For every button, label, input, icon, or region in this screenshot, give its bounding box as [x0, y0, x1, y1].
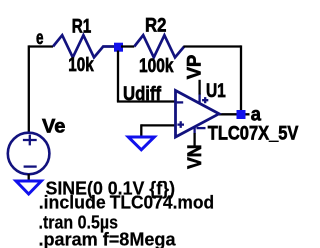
junction R1/R2 node	[114, 43, 123, 52]
svg-text:R1: R1	[72, 16, 92, 37]
svg-text:100k: 100k	[139, 56, 174, 77]
op-amp U1 triangle	[176, 91, 220, 138]
wire VP supply stub	[198, 80, 200, 95]
svg-text:10k: 10k	[68, 55, 94, 76]
wire e-node vertical down to source	[28, 45, 30, 132]
voltage source minus marker	[24, 165, 37, 167]
wire inverting input horizontal	[117, 100, 176, 102]
svg-text:VP: VP	[185, 54, 206, 79]
svg-text:TLC07X_5V: TLC07X_5V	[208, 124, 299, 145]
svg-text:e: e	[36, 28, 44, 49]
wire junction to R2	[121, 45, 134, 47]
svg-text:TLC074.mod: TLC074.mod	[110, 192, 215, 212]
wire op-amp output	[219, 113, 250, 115]
voltage source plus marker	[23, 135, 37, 146]
op-amp VP plus marker	[202, 97, 208, 103]
svg-text:.param f=8Mega: .param f=8Mega	[39, 229, 177, 248]
svg-text:VN: VN	[185, 145, 206, 170]
wire junction down to inverting input	[117, 51, 119, 102]
junction output node	[237, 110, 246, 119]
op-amp inverting minus marker	[177, 101, 184, 103]
svg-text:Ve: Ve	[42, 117, 65, 138]
resistor R1	[53, 35, 114, 57]
svg-text:U1: U1	[206, 81, 226, 102]
op-amp VN lead (symbol)	[193, 127, 195, 134]
wire R2 to feedback corner	[184, 45, 242, 47]
ground below source	[16, 181, 41, 194]
svg-text:.include: .include	[39, 192, 106, 212]
resistor R2	[134, 35, 184, 57]
wire VN supply stub	[193, 133, 195, 146]
wire non-inverting input horizontal	[141, 124, 175, 126]
svg-text:a: a	[251, 105, 262, 126]
op-amp VP lead (symbol)	[198, 94, 200, 104]
svg-text:Udiff: Udiff	[123, 84, 162, 105]
wire stub to input ground	[140, 124, 142, 136]
voltage source Ve circle	[8, 133, 50, 175]
wire feedback vertical down	[240, 45, 242, 114]
ground at non-inverting input	[128, 137, 154, 150]
op-amp VN minus marker	[197, 127, 206, 129]
op-amp non-inverting plus marker	[177, 121, 184, 128]
wire stub source to ground	[28, 174, 30, 180]
svg-text:R2: R2	[145, 15, 166, 36]
wire e-node horizontal top-left	[29, 45, 53, 47]
